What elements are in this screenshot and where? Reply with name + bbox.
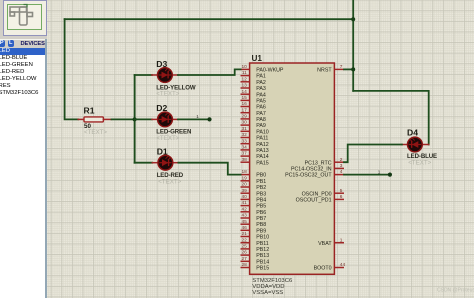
schematic preview box (3, 0, 48, 36)
D1 anode lead (152, 162, 158, 164)
svg-text:11: 11 (242, 70, 247, 76)
svg-text:PB2: PB2 (256, 185, 266, 191)
item LED-GREEN (0, 62, 45, 69)
svg-text:29: 29 (241, 114, 247, 120)
P L DEVICES header bar (0, 39, 45, 50)
svg-text:31: 31 (241, 126, 247, 132)
svg-text:PB1: PB1 (256, 179, 266, 185)
wire to D2 (135, 118, 152, 120)
resistor R1 left lead (78, 118, 84, 120)
svg-text:D3: D3 (156, 59, 167, 69)
svg-text:R1: R1 (84, 105, 95, 115)
svg-text:18: 18 (241, 169, 247, 175)
svg-text:PB10: PB10 (256, 235, 269, 241)
svg-text:40: 40 (241, 194, 247, 200)
svg-text:VSSA=VSS: VSSA=VSS (252, 290, 283, 296)
svg-text:BOOT0: BOOT0 (314, 266, 332, 272)
svg-text:20: 20 (241, 182, 247, 188)
item STM32F103C6 (0, 90, 45, 97)
svg-text:PB0: PB0 (256, 173, 266, 179)
svg-text:12: 12 (241, 76, 247, 82)
panel divider (45, 39, 47, 298)
svg-text:PB5: PB5 (256, 204, 266, 210)
svg-text:PB15: PB15 (256, 266, 269, 272)
wire NRST vertical net (352, 0, 354, 91)
svg-text:D1: D1 (157, 147, 168, 157)
U1 left pin stubs, numbers and names (241, 64, 284, 272)
svg-text:1: 1 (378, 170, 381, 175)
svg-text:PB8: PB8 (256, 222, 266, 228)
svg-text:PB13: PB13 (256, 253, 269, 259)
svg-text:10: 10 (241, 64, 247, 70)
svg-text:27: 27 (241, 256, 247, 262)
svg-text:PA15: PA15 (256, 160, 269, 166)
U1 right pin stubs, numbers and names (285, 64, 345, 272)
preview sheet green border (7, 4, 42, 30)
svg-text:25: 25 (241, 244, 247, 250)
svg-text:13: 13 (241, 83, 247, 89)
button P (0, 40, 5, 47)
wire D4 to pin PC13 (344, 145, 402, 163)
svg-text:PB9: PB9 (256, 228, 266, 234)
svg-text:PC15-OSC32_OUT: PC15-OSC32_OUT (285, 173, 332, 179)
wire NRST stub connection (344, 68, 353, 70)
svg-text:7: 7 (340, 64, 343, 70)
svg-text:5: 5 (340, 188, 343, 194)
svg-text:1: 1 (196, 114, 199, 119)
svg-text:4: 4 (340, 169, 343, 175)
svg-text:19: 19 (241, 175, 247, 181)
wire end dot node 1 right (388, 173, 392, 177)
junction dot R1/D2 (133, 117, 137, 121)
svg-text:PA8: PA8 (256, 117, 266, 123)
chip U1 body (250, 63, 335, 274)
svg-text:PB7: PB7 (256, 216, 266, 222)
svg-text:15: 15 (241, 95, 247, 101)
svg-text:PA2: PA2 (256, 80, 266, 86)
label DEVICES (21, 41, 45, 47)
svg-text:OSCOUT_PD1: OSCOUT_PD1 (296, 198, 332, 204)
svg-text:PA12: PA12 (256, 142, 269, 148)
svg-text:PC13_RTC: PC13_RTC (305, 160, 332, 166)
svg-text:41: 41 (241, 200, 247, 206)
svg-text:PB3: PB3 (256, 191, 266, 197)
svg-text:PB6: PB6 (256, 210, 266, 216)
preview icon (0, 0, 47, 38)
svg-text:PB14: PB14 (256, 259, 269, 265)
svg-text:<TEXT>: <TEXT> (156, 135, 179, 142)
svg-text:37: 37 (241, 151, 247, 157)
svg-text:PA5: PA5 (256, 99, 266, 105)
junction dot NRST pin (351, 67, 355, 71)
svg-text:<TEXT>: <TEXT> (408, 159, 431, 166)
svg-text:46: 46 (241, 225, 247, 231)
wire D1 to pin PB0 (178, 163, 240, 175)
svg-text:PB4: PB4 (256, 198, 266, 204)
svg-text:32: 32 (241, 132, 247, 138)
svg-text:17: 17 (241, 107, 247, 113)
svg-text:30: 30 (241, 120, 247, 126)
svg-text:<TEXT>: <TEXT> (84, 129, 107, 136)
D3 anode lead (152, 74, 158, 76)
svg-text:PA13: PA13 (256, 148, 269, 154)
item LED-RED (0, 69, 45, 76)
svg-text:16: 16 (241, 101, 247, 107)
svg-text:PA7: PA7 (256, 111, 266, 117)
svg-text:PB12: PB12 (256, 247, 269, 253)
D2 cathode lead (172, 118, 178, 120)
LED D2 (158, 112, 173, 127)
svg-text:44: 44 (340, 262, 346, 268)
svg-text:PA11: PA11 (256, 136, 268, 142)
svg-text:PC14-OSC32_IN: PC14-OSC32_IN (291, 167, 332, 173)
svg-text:38: 38 (241, 157, 247, 163)
svg-text:PA3: PA3 (256, 86, 266, 92)
wire D2 dangling end (178, 118, 210, 120)
wire top horizontal net (65, 18, 354, 20)
panel gray background top (0, 0, 47, 49)
D1 cathode lead (173, 162, 179, 164)
svg-text:PA10: PA10 (256, 129, 269, 135)
svg-text:45: 45 (241, 219, 247, 225)
svg-text:6: 6 (340, 194, 343, 200)
item LED-YELLOW (0, 76, 45, 83)
svg-text:2: 2 (340, 157, 343, 163)
wire R1 to LED column junction (112, 118, 135, 120)
svg-text:39: 39 (241, 188, 247, 194)
svg-text:PA4: PA4 (256, 92, 266, 98)
svg-text:PA1: PA1 (256, 74, 266, 80)
svg-text:33: 33 (241, 138, 247, 144)
wire to D1 (135, 162, 153, 164)
svg-text:NRST: NRST (317, 68, 332, 74)
wire end dot node 1 (207, 117, 211, 121)
LED D4 (408, 137, 423, 152)
left object selector panel (0, 0, 47, 298)
wire NRST net to D4 (353, 91, 429, 145)
wire D3 to pin PA0 (178, 69, 241, 75)
wire left vertical to R1 (65, 19, 79, 119)
svg-text:34: 34 (241, 145, 247, 151)
svg-text:VBAT: VBAT (318, 241, 332, 247)
svg-text:14: 14 (241, 89, 247, 95)
svg-text:21: 21 (241, 231, 247, 237)
svg-text:1: 1 (340, 237, 343, 243)
wire PC15 dangling (344, 174, 390, 176)
item RES (0, 83, 45, 90)
wire vertical LED column (134, 75, 136, 163)
svg-text:CSDN @Proteus: CSDN @Proteus (437, 288, 474, 294)
svg-text:D2: D2 (156, 103, 167, 113)
item LED-BLUE (0, 55, 45, 62)
svg-text:PA0-WKUP: PA0-WKUP (256, 68, 284, 74)
chip value labels STM32F103C6 (252, 278, 293, 296)
svg-text:D4: D4 (407, 128, 418, 138)
svg-text:<TEXT>: <TEXT> (156, 91, 179, 98)
junction dot top wire / NRST net (351, 17, 355, 21)
svg-text:PA6: PA6 (256, 105, 266, 111)
D4 right lead (422, 144, 428, 146)
button L (8, 40, 15, 47)
svg-text:U1: U1 (252, 54, 263, 63)
svg-text:42: 42 (241, 206, 247, 212)
LED D1 (158, 155, 173, 170)
svg-text:26: 26 (241, 250, 247, 256)
svg-text:28: 28 (241, 262, 247, 268)
svg-text:PB11: PB11 (256, 241, 269, 247)
svg-text:PA14: PA14 (256, 154, 269, 160)
D4 left lead (402, 144, 408, 146)
D3 cathode lead (172, 74, 178, 76)
svg-text:22: 22 (241, 237, 247, 243)
svg-text:OSCIN_PD0: OSCIN_PD0 (302, 191, 332, 197)
svg-text:43: 43 (241, 213, 247, 219)
device list box (0, 48, 45, 298)
resistor R1 right lead (103, 118, 111, 120)
resistor R1 (84, 117, 103, 122)
D2 anode lead (152, 118, 158, 120)
svg-text:3: 3 (340, 163, 343, 169)
svg-text:<TEXT>: <TEXT> (158, 178, 181, 185)
wire to D3 (135, 74, 152, 76)
selected item LED (0, 48, 45, 55)
svg-text:PA9: PA9 (256, 123, 266, 129)
LED D3 (158, 68, 173, 83)
